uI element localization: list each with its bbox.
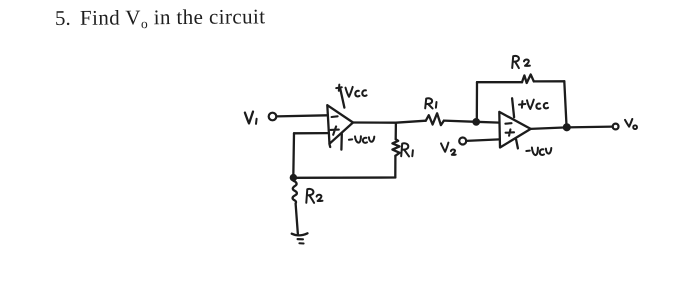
terminal V1	[269, 113, 277, 121]
U2 +Vcc supply line	[512, 98, 514, 117]
U2 +Vcc label	[519, 100, 548, 109]
U1 minus sign	[332, 115, 338, 118]
node V2 label	[441, 143, 456, 155]
wire V1 to U1 inverting input	[277, 115, 328, 116]
node junction C	[564, 124, 571, 131]
U2 plus sign	[506, 129, 514, 135]
wire R1 vertical bottom lead	[394, 156, 396, 178]
wire U1 output	[353, 121, 426, 123]
wire V2 to U2 noninverting input	[466, 139, 499, 141]
node Vo label	[625, 119, 637, 129]
U1 -Vcc supply line	[340, 134, 343, 150]
op-amp U1	[327, 105, 353, 147]
svg-text:5.: 5.	[55, 6, 71, 30]
wire R1 to U2 inverting input	[444, 121, 499, 123]
U2 minus sign	[505, 122, 511, 125]
node junction B	[473, 119, 479, 125]
wire R2 feedback right vertical	[564, 81, 566, 127]
terminal V2	[459, 138, 466, 145]
svg-text:Find Vo in the circuit: Find Vo in the circuit	[80, 4, 266, 31]
R1 vertical label	[401, 143, 413, 156]
U2 -Vcc supply line	[516, 140, 518, 149]
wire R2 vertical to ground	[296, 203, 298, 234]
resistor R2 vertical	[293, 181, 297, 204]
R2 feedback label	[512, 56, 530, 68]
U1 +Vcc supply line	[340, 89, 344, 108]
wire bottom horizontal	[293, 176, 395, 179]
resistor R2 feedback	[522, 75, 534, 84]
resistor R1 vertical	[392, 139, 399, 156]
R1 horizontal label	[425, 98, 436, 108]
U2 -Vcc label	[526, 148, 551, 156]
U1 plus sign	[331, 127, 339, 135]
node V1 label	[245, 112, 257, 124]
terminal Vo	[613, 124, 619, 130]
wire U1 noninverting input	[294, 132, 328, 134]
wire R1 vertical top lead	[395, 123, 397, 140]
wire R2 feedback left vertical	[476, 82, 479, 122]
ground	[292, 233, 308, 243]
wire U2 output	[531, 127, 613, 129]
wire R2 feedback top right	[534, 80, 565, 82]
op-amp U2	[499, 112, 530, 148]
problem heading text	[55, 4, 266, 31]
R2 vertical label	[306, 189, 322, 203]
wire R2 feedback top left	[477, 81, 522, 83]
node junction A	[290, 175, 296, 181]
wire feedback left vertical	[292, 133, 295, 177]
U1 -Vcc label	[349, 136, 374, 143]
U1 +Vcc label	[336, 85, 366, 97]
resistor R1 horizontal	[426, 113, 444, 125]
